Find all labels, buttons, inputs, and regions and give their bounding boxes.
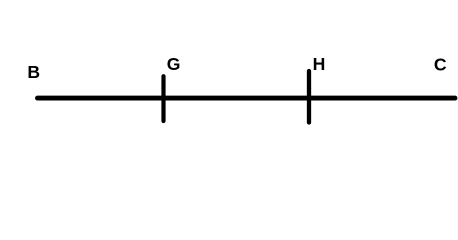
svg-text:G: G xyxy=(167,54,181,74)
tick G xyxy=(161,76,165,121)
svg-text:B: B xyxy=(27,62,40,82)
line segment BC xyxy=(38,96,456,101)
svg-text:H: H xyxy=(313,54,326,74)
svg-text:C: C xyxy=(434,54,447,74)
tick H xyxy=(307,71,311,123)
